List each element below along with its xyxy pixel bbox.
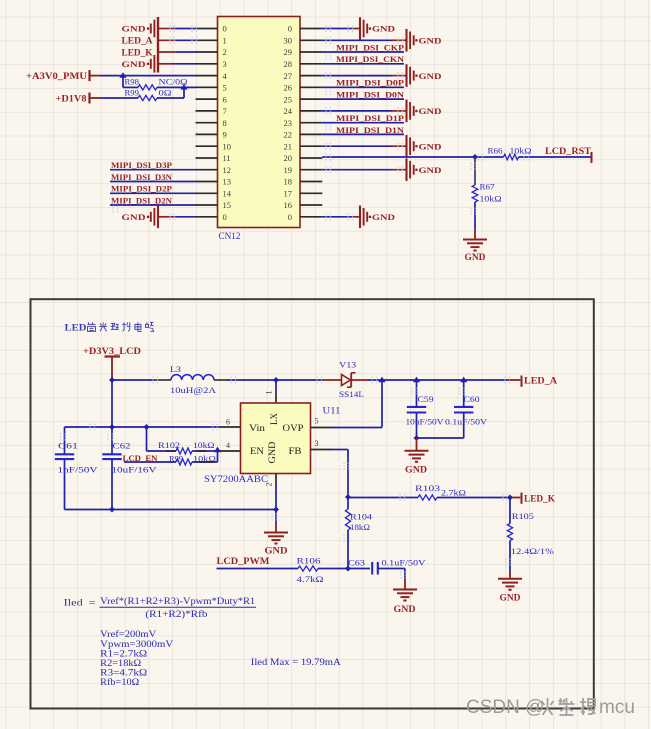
power port GND (row 7 right) (407, 100, 442, 123)
power port GND (pin 0 left) (122, 20, 155, 38)
svg-text:R103: R103 (415, 483, 440, 493)
net label MIPI_DSI_D3N (pin 13 left) (111, 172, 173, 182)
wire FB to divider (333, 450, 350, 498)
net label MIPI_DSI_D3P (pin 12 left) (111, 160, 172, 170)
junction C62 top (109, 424, 115, 430)
wire LCD_EN to R99b (124, 461, 176, 463)
wire R99 up to junction (157, 87, 184, 98)
connector CN12 left pin numbers (223, 24, 232, 222)
svg-text:0: 0 (223, 212, 227, 222)
U11 pin name EN (250, 446, 265, 456)
svg-text:GND: GND (419, 141, 442, 151)
power port GND (pin 0 bottom left) (122, 206, 159, 229)
wire MIPI_DSI_D2P (110, 193, 196, 201)
connector CN12 body (218, 17, 301, 228)
wire R102 vertical from Vin rail (147, 427, 177, 451)
svg-text:OVP: OVP (283, 423, 304, 433)
svg-text:+D3V3_LCD: +D3V3_LCD (83, 346, 142, 356)
capacitor C61 1nF/50V (55, 427, 99, 510)
wire diode to LED_A port (368, 376, 521, 383)
wire pin0 bottom right to GND (322, 213, 359, 220)
junction R98/R99 (180, 84, 187, 90)
net label MIPI_DSI_D2N (pin 15 left) (111, 195, 173, 205)
wire L3 to diode (112, 376, 323, 383)
wire pin right row 7 to GND (322, 107, 405, 114)
svg-text:28: 28 (284, 59, 293, 69)
svg-text:R2=18kΩ: R2=18kΩ (100, 658, 141, 668)
power port GND (row 10 right) (407, 135, 442, 158)
junction C59 bottom (414, 435, 420, 441)
junction C60 rail (460, 377, 467, 383)
wire R66 to LCD_RST port (519, 153, 592, 160)
svg-text:MIPI_DSI_D3N: MIPI_DSI_D3N (111, 172, 173, 182)
svg-text:R67: R67 (480, 183, 495, 192)
svg-text:16: 16 (284, 200, 293, 210)
wire C59 bottom to ground (416, 438, 418, 451)
svg-text:GND: GND (419, 36, 442, 46)
svg-text:5: 5 (223, 83, 227, 93)
svg-text:MIPI_DSI_CKP: MIPI_DSI_CKP (336, 42, 404, 52)
svg-text:LED_K: LED_K (524, 494, 555, 504)
resistor R105 12.4R/1% (507, 498, 554, 556)
wire MIPI_DSI_D0P (322, 87, 404, 95)
svg-text:LX: LX (269, 413, 279, 425)
svg-text:19: 19 (284, 165, 293, 175)
net label MIPI_DSI_D0N (336, 90, 405, 100)
svg-text:7: 7 (223, 106, 227, 116)
junction GND pin rail (273, 507, 279, 513)
svg-text:12: 12 (223, 165, 232, 175)
svg-text:Vref=200mV: Vref=200mV (100, 629, 157, 639)
power port GND (row 1 right) (407, 29, 442, 52)
svg-text:R99: R99 (125, 88, 140, 97)
designator U11 (323, 405, 341, 415)
resistor R103 2.7k (415, 483, 466, 500)
shared GND bar (left rows 0-3) (157, 17, 159, 73)
svg-text:17: 17 (284, 189, 293, 199)
svg-text:0: 0 (223, 24, 227, 34)
resistor R98 NC/0R (125, 78, 188, 90)
svg-text:20: 20 (284, 153, 293, 163)
svg-text:0: 0 (288, 24, 292, 34)
pin number 1 (U11 LX) (265, 391, 274, 395)
svg-text:GND: GND (122, 212, 146, 222)
inductor L3 10uH@2A (156, 364, 228, 395)
svg-text:0: 0 (288, 212, 292, 222)
svg-text:10kΩ: 10kΩ (193, 441, 215, 450)
svg-text:15: 15 (223, 200, 232, 210)
svg-text:+D1V8: +D1V8 (56, 94, 88, 104)
svg-text:8: 8 (223, 118, 227, 128)
svg-text:R102: R102 (158, 441, 180, 450)
junction LX rail (273, 377, 279, 383)
svg-text:R104: R104 (350, 511, 373, 521)
svg-text:=: = (89, 597, 96, 607)
wire R105 to ground (505, 541, 511, 579)
svg-text:GND: GND (122, 24, 146, 34)
U11 pin 4 stub (220, 441, 241, 451)
connector CN12 left pin stubs pins 0-15,0 (196, 29, 218, 217)
net label MIPI_DSI_CKP (336, 42, 404, 52)
svg-text:LED: LED (65, 324, 87, 334)
svg-text:4.7kΩ: 4.7kΩ (297, 574, 324, 584)
net label LED_K (pin2) (122, 47, 153, 57)
junction R66/R67 (472, 154, 478, 160)
svg-text:10uF/50V: 10uF/50V (406, 416, 445, 426)
watermark CSDN @huochaigun mcu (466, 697, 635, 718)
net label LCD_PWM (217, 556, 271, 566)
svg-text:22: 22 (284, 130, 293, 140)
svg-text:6: 6 (226, 417, 230, 426)
svg-text:MIPI_DSI_D1P: MIPI_DSI_D1P (336, 113, 404, 123)
svg-text:3: 3 (223, 59, 227, 69)
wire MIPI_DSI_CKN (322, 63, 404, 65)
wire R106 to C63 node (318, 568, 348, 570)
svg-text:9: 9 (223, 130, 227, 140)
ground symbol below C59 (405, 451, 429, 475)
formula constants (100, 629, 174, 687)
svg-text:10: 10 (223, 141, 232, 151)
ground symbol below R67 (463, 240, 487, 263)
net label MIPI_DSI_D1N (336, 125, 405, 135)
junction EN (214, 447, 221, 453)
wire R98 left vertical (123, 76, 138, 88)
svg-text:MIPI_DSI_D3P: MIPI_DSI_D3P (111, 160, 172, 170)
net label MIPI_DSI_D1P (336, 113, 404, 123)
junction R105 top (507, 495, 513, 501)
wire pin0 bottom left (159, 213, 196, 220)
svg-text:10uF/16V: 10uF/16V (112, 465, 158, 475)
svg-text:3: 3 (315, 439, 319, 448)
svg-text:Iled: Iled (64, 597, 84, 607)
svg-text:12.4Ω/1%: 12.4Ω/1% (511, 546, 554, 556)
wire rail to L3 (0, 0, 1, 1)
resistor R104 18k (343, 497, 373, 542)
capacitor C62 10uF/16V (102, 427, 157, 510)
net label MIPI_DSI_D0P (336, 78, 404, 88)
svg-text:2: 2 (265, 483, 274, 487)
svg-text:R66: R66 (488, 147, 503, 156)
wire GND pin2 down (271, 484, 277, 533)
wire pin2 left (159, 51, 196, 53)
svg-text:LED_A: LED_A (524, 376, 558, 386)
wire pin1 left (159, 37, 197, 44)
wire pin right row 10 to GND (322, 143, 405, 150)
wire R67 to ground (470, 162, 476, 239)
wire MIPI_DSI_D1P (322, 123, 404, 131)
svg-text:R106: R106 (297, 555, 321, 565)
wire LX pin1 down to U11 (275, 380, 277, 403)
capacitor C60 0.1uF/50V (445, 380, 488, 438)
net label LCD_EN (123, 453, 159, 463)
wire pin right row 4 to GND (322, 72, 405, 79)
svg-text:C61: C61 (58, 440, 78, 450)
svg-text:GND: GND (465, 252, 487, 262)
wire pin right row 12 to GND (322, 166, 405, 173)
svg-text:SS14L: SS14L (339, 389, 364, 399)
svg-text:FB: FB (289, 446, 302, 456)
svg-text:MIPI_DSI_D2P: MIPI_DSI_D2P (111, 184, 172, 194)
wire MIPI_DSI_D1N (322, 133, 404, 135)
power port GND (pin 0 top right) (360, 17, 395, 40)
svg-text:0.1uF/50V: 0.1uF/50V (445, 416, 488, 426)
port LED_K (522, 493, 556, 504)
svg-text:R105: R105 (512, 511, 534, 521)
svg-text:GND: GND (394, 604, 417, 614)
svg-text:GND: GND (419, 165, 442, 175)
net label LED_A (pin1) (122, 36, 154, 46)
wire +D1V8 to R99 (101, 97, 139, 99)
svg-text:11: 11 (223, 153, 231, 163)
svg-text:4: 4 (226, 441, 230, 450)
wire R103 to LED_K port (437, 494, 520, 501)
svg-text:MIPI_DSI_D2N: MIPI_DSI_D2N (111, 195, 173, 205)
svg-text:mcu: mcu (599, 697, 635, 718)
svg-text:Iled Max = 19.79mA: Iled Max = 19.79mA (251, 657, 342, 667)
svg-text:Vref*(R1+R2+R3)-Vpwm*Duty*R1: Vref*(R1+R2+R3)-Vpwm*Duty*R1 (100, 596, 255, 606)
wire +A3V0_PMU to pin4 (101, 75, 196, 77)
svg-text:CN12: CN12 (219, 231, 241, 241)
svg-text:Vpwm=3000mV: Vpwm=3000mV (100, 639, 174, 649)
junction C59 rail (413, 377, 420, 383)
resistor R67 10k (472, 157, 501, 204)
svg-text:MIPI_DSI_D0N: MIPI_DSI_D0N (336, 90, 405, 100)
svg-text:14: 14 (223, 189, 232, 199)
junction OVP rail (378, 377, 385, 383)
power port GND (row 4 right) (407, 64, 442, 87)
svg-text:GND: GND (405, 464, 428, 474)
junction R102 top (144, 424, 150, 430)
net label MIPI_DSI_CKN (336, 54, 405, 64)
power port +D3V3_LCD (83, 346, 142, 380)
wire pin right row 11 (LCD_RST net) (322, 153, 503, 160)
wire pin right row 1 to GND (322, 37, 405, 44)
svg-text:23: 23 (284, 118, 293, 128)
svg-text:27: 27 (284, 71, 293, 81)
junction C63 node (345, 566, 351, 572)
svg-text:R1=2.7kΩ: R1=2.7kΩ (100, 648, 147, 658)
net label MIPI_DSI_D2P (pin 14 left) (111, 184, 172, 194)
capacitor C63 0.1uF/50V (348, 557, 427, 574)
svg-text:GND: GND (122, 59, 146, 69)
op-amp/regulator U11 SY7200AABC body (241, 403, 311, 474)
svg-text:V13: V13 (339, 359, 356, 369)
svg-text:GND: GND (419, 71, 442, 81)
wire FB node to R103 (348, 494, 418, 501)
resistor R99 0R (125, 88, 172, 100)
U11 pin name OVP (283, 423, 304, 433)
svg-text:5: 5 (315, 416, 319, 425)
U11 pin name Vin (249, 423, 266, 433)
svg-text:1: 1 (265, 391, 274, 395)
svg-text:MIPI_DSI_D1N: MIPI_DSI_D1N (336, 125, 405, 135)
port LED_A (522, 376, 558, 387)
U11 pin 6 stub (220, 417, 241, 427)
svg-text:C62: C62 (113, 440, 131, 450)
power port GND (pin 3 left) (122, 55, 155, 73)
resistor R99b 10k (series EN) (169, 455, 216, 466)
power port +D1V8 (56, 93, 101, 104)
svg-text:24: 24 (284, 106, 293, 116)
svg-text:25: 25 (284, 94, 293, 104)
resistor R102 10k (158, 441, 215, 454)
connector CN12 right pin stubs pins 16-30 (300, 29, 322, 217)
wire R99b up to EN (192, 451, 218, 462)
svg-text:1nF/50V: 1nF/50V (58, 465, 99, 475)
power port GND (row 12 right) (407, 158, 442, 181)
wire C59/C60 bottoms join (417, 437, 464, 439)
junction +D3V3/rail (109, 377, 115, 383)
svg-text:GND: GND (372, 24, 395, 34)
svg-text:6: 6 (223, 94, 227, 104)
svg-text:SY7200AABC: SY7200AABC (204, 474, 268, 484)
wire Vin rail (65, 423, 220, 430)
svg-text:18kΩ: 18kΩ (350, 522, 370, 532)
svg-text:R98: R98 (125, 78, 140, 87)
designator CN12 (219, 231, 241, 241)
ground symbol below C63 (393, 590, 417, 614)
formula Iled (64, 596, 256, 619)
resistor R66 10k (488, 147, 532, 160)
svg-text:GND: GND (265, 545, 289, 555)
svg-text:29: 29 (284, 47, 293, 57)
svg-text:21: 21 (284, 141, 293, 151)
svg-text:LCD_PWM: LCD_PWM (217, 556, 271, 566)
svg-text:C59: C59 (418, 394, 434, 404)
svg-text:13: 13 (223, 177, 232, 187)
wire MIPI_DSI_CKP (322, 52, 404, 60)
U11 pin 2 stub (265, 474, 277, 487)
svg-text:0.1uF/50V: 0.1uF/50V (382, 557, 427, 567)
connector CN12 right pin numbers (284, 24, 293, 222)
ground symbol below R105 (498, 579, 522, 603)
svg-text:(R1+R2)*Rfb: (R1+R2)*Rfb (145, 609, 208, 619)
junction C62 bottom (109, 507, 115, 513)
svg-text:10uH@2A: 10uH@2A (170, 385, 217, 395)
svg-text:C60: C60 (464, 394, 480, 404)
svg-text:30: 30 (284, 36, 293, 46)
wire R102 to EN pin (166, 450, 220, 452)
svg-text:26: 26 (284, 83, 293, 93)
ground symbol below U11 (264, 533, 288, 556)
svg-text:MIPI_DSI_D0P: MIPI_DSI_D0P (336, 78, 404, 88)
title LED backlight driver circuit (LED背光驱动电路) (65, 322, 154, 333)
power port GND (pin 0 bottom right) (360, 206, 395, 229)
svg-text:Vin: Vin (249, 423, 266, 433)
svg-text:0Ω: 0Ω (159, 88, 172, 97)
wire MIPI_DSI_D3P (110, 170, 196, 178)
U11 pin 5 stub (311, 416, 333, 427)
U11 pin name GND (rotated) (267, 441, 277, 464)
svg-text:MIPI_DSI_CKN: MIPI_DSI_CKN (336, 54, 405, 64)
svg-text:GND: GND (267, 441, 277, 464)
U11 pin 3 stub (311, 439, 333, 450)
svg-text:2.7kΩ: 2.7kΩ (441, 488, 466, 498)
wire bottom ground rail (65, 509, 277, 511)
wire MIPI_DSI_D3N (110, 182, 196, 190)
svg-text:18: 18 (284, 177, 293, 187)
U11 pin name LX (rotated) (269, 413, 279, 425)
designator SY7200AABC (204, 474, 268, 484)
wire MIPI_DSI_D0N (322, 98, 404, 100)
svg-text:C63: C63 (348, 557, 365, 567)
svg-text:LED_K: LED_K (122, 47, 153, 57)
svg-text:10kΩ: 10kΩ (480, 195, 502, 204)
junction A3V0/R98 (119, 72, 126, 78)
wire +D3V3 vertical to Vin rail (111, 380, 113, 427)
wire pin0 right to GND (322, 25, 359, 32)
wire pin0 left (159, 25, 197, 32)
diode V13 SS14L (323, 359, 368, 399)
wire R98 to pin5 (157, 86, 196, 88)
svg-text:CSDN @: CSDN @ (466, 697, 544, 718)
wire R104 down to C63 node (347, 530, 349, 569)
svg-text:+A3V0_PMU: +A3V0_PMU (26, 71, 88, 81)
svg-text:GND: GND (500, 592, 522, 602)
resistor R106 4.7k (297, 555, 324, 584)
wire pin3 left (159, 63, 196, 65)
junction FB node (345, 494, 351, 500)
svg-text:2: 2 (223, 47, 227, 57)
wire MIPI_DSI_D2N (110, 205, 196, 213)
svg-text:U11: U11 (323, 405, 341, 415)
svg-text:R99: R99 (169, 455, 183, 464)
formula Iled Max (251, 657, 342, 667)
capacitor C59 10uF/50V (406, 380, 445, 438)
wire OVP riser (333, 380, 383, 428)
port LCD_RST (545, 146, 592, 163)
svg-text:EN: EN (250, 446, 265, 456)
svg-text:GND: GND (372, 212, 395, 222)
svg-text:GND: GND (419, 106, 442, 116)
svg-text:L3: L3 (170, 364, 181, 374)
schematic sheet border (31, 299, 594, 708)
U11 pin name FB (289, 446, 302, 456)
svg-text:LED_A: LED_A (122, 36, 154, 46)
svg-text:Rfb=10Ω: Rfb=10Ω (100, 677, 139, 687)
power port +A3V0_PMU (26, 70, 101, 81)
svg-text:R3=4.7kΩ: R3=4.7kΩ (100, 668, 147, 678)
svg-text:LCD_RST: LCD_RST (545, 146, 591, 156)
wire C63 to ground (378, 569, 407, 590)
svg-text:1: 1 (223, 36, 227, 46)
wire LCD_PWM to R106 (217, 568, 299, 570)
